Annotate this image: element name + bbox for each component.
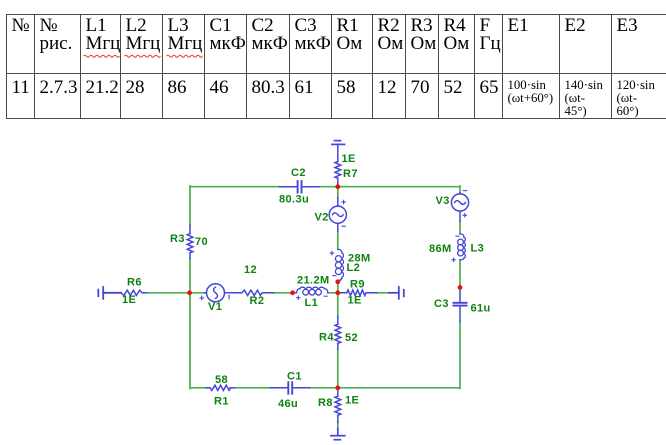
- svg-text:L1: L1: [305, 297, 319, 309]
- junction L2 bottom node: [335, 279, 340, 284]
- wire bottom green is continuous; capacitor C1: [270, 382, 310, 394]
- svg-text:R3: R3: [170, 233, 185, 245]
- spellcheck squiggles: [84, 55, 120, 57]
- svg-text:R2: R2: [250, 295, 265, 307]
- V2 polarity marks: [342, 200, 346, 226]
- svg-text:V3: V3: [436, 195, 450, 207]
- V1 polarity marks: [200, 295, 229, 300]
- junction R2 / L1 node: [290, 290, 295, 295]
- svg-text:R8: R8: [318, 397, 333, 409]
- junction left rail / R6 wire: [187, 290, 192, 295]
- resistor R9: [338, 290, 377, 296]
- resistor R2: [242, 290, 274, 295]
- svg-text:R6: R6: [127, 277, 142, 289]
- terminal IO2 right: [389, 287, 404, 299]
- capacitor C2: [279, 181, 319, 193]
- svg-text:46u: 46u: [278, 398, 298, 410]
- wire top-right horizontal (node 2): [319, 186, 460, 188]
- svg-text:R7: R7: [343, 168, 358, 180]
- svg-text:C2: C2: [291, 167, 306, 179]
- source V1: [205, 284, 242, 302]
- svg-text:C1: C1: [287, 371, 302, 383]
- svg-text:V1: V1: [208, 301, 222, 313]
- wire middle row green segments: [146, 292, 205, 294]
- svg-text:1E: 1E: [122, 294, 136, 306]
- svg-text:86M: 86M: [429, 243, 452, 255]
- ground GND bottom (below R8): [331, 429, 345, 440]
- junction middle wire center node: [335, 290, 340, 295]
- resistor R1: [206, 385, 235, 390]
- resistor R6: [121, 290, 147, 295]
- wire R8 ground segment: [337, 422, 339, 428]
- svg-text:R1: R1: [214, 396, 229, 408]
- svg-text:12: 12: [244, 264, 257, 276]
- resistor R8: [335, 388, 341, 423]
- source V2: [329, 197, 346, 231]
- wire left rail lower: [189, 259, 191, 389]
- wire right rail upper segments: [459, 186, 461, 193]
- L3 polarity marks: [452, 236, 459, 261]
- L1 polarity marks: [297, 296, 328, 299]
- wire left rail upper: [189, 186, 191, 225]
- source V3: [451, 193, 468, 222]
- svg-text:L2: L2: [347, 262, 361, 274]
- svg-text:80.3u: 80.3u: [279, 194, 309, 206]
- wire bottom horizontal segments: [190, 387, 206, 389]
- inductor L1: [293, 287, 328, 295]
- svg-text:R9: R9: [350, 279, 365, 291]
- svg-text:52: 52: [345, 332, 358, 344]
- V3 polarity marks: [463, 191, 467, 217]
- svg-text:V2: V2: [315, 212, 329, 224]
- svg-text:21.2M: 21.2M: [297, 275, 330, 287]
- svg-text:C3: C3: [434, 298, 449, 310]
- capacitor C3: [453, 287, 466, 321]
- svg-text:1E: 1E: [342, 153, 356, 165]
- inductor L2: [335, 249, 343, 281]
- junction bottom wire / R4 / R8 node: [335, 385, 340, 390]
- resistor R3: [187, 225, 193, 258]
- svg-text:L3: L3: [471, 243, 485, 255]
- svg-text:R4: R4: [319, 332, 334, 344]
- resistor R7 with lead: [335, 145, 341, 187]
- svg-text:1E: 1E: [348, 295, 362, 307]
- wire right rail lower: [459, 321, 461, 388]
- svg-text:70: 70: [195, 236, 208, 248]
- ground GND top (above R7): [332, 141, 345, 145]
- wire top-left horizontal (node 1): [190, 186, 279, 188]
- junction L3 / C3 node: [458, 285, 463, 290]
- resistor R4: [335, 316, 341, 349]
- wire center column segments: [337, 187, 339, 198]
- L2 polarity marks: [330, 251, 336, 275]
- svg-text:61u: 61u: [471, 303, 491, 315]
- svg-text:58: 58: [215, 374, 228, 386]
- junction top wire / R7 / V2 node: [335, 184, 340, 189]
- terminal IO1 left: [98, 287, 121, 299]
- svg-text:1E: 1E: [345, 395, 359, 407]
- inductor L3: [458, 234, 466, 260]
